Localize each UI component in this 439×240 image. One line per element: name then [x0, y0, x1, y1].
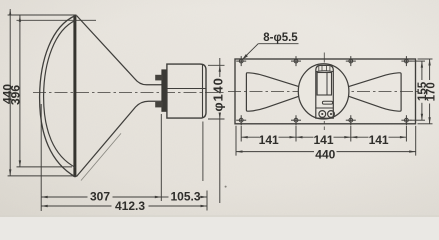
horn flare curve bottom-right — [346, 95, 399, 111]
terminal (right) — [328, 111, 335, 118]
svg-text:170: 170 — [425, 82, 437, 101]
paper speck — [225, 186, 227, 188]
bottom extension line from driver rear — [202, 122, 204, 182]
dimension 307 (horizontal, bottom) — [41, 196, 161, 198]
svg-text:141: 141 — [313, 133, 333, 147]
cover slot — [322, 101, 332, 104]
mounting holes, top row — [236, 56, 411, 66]
vertical center line — [323, 53, 325, 131]
driver housing circle — [298, 64, 349, 119]
driver cover (rounded slab) — [316, 65, 334, 118]
driver flange (dark vertical bar) — [162, 70, 167, 112]
dimensions 155 / 170 (vertical, right) — [411, 59, 433, 124]
svg-text:412.3: 412.3 — [115, 199, 145, 213]
bell outer contour arc — [40, 16, 76, 178]
cover rib line — [316, 70, 334, 73]
dimension 440 (horizontal, bottom right view) — [236, 150, 416, 152]
driver body rear seam — [202, 64, 204, 118]
cover window — [317, 73, 331, 96]
center line (horizontal axis) — [33, 91, 225, 93]
svg-text:φ140: φ140 — [211, 77, 226, 111]
dimension 440 (vertical, left) — [8, 9, 77, 176]
svg-text:307: 307 — [90, 189, 110, 203]
cover ribs — [319, 66, 330, 72]
8-φ5.5 leader line — [242, 44, 298, 60]
horn flare curve bottom-left — [249, 95, 302, 111]
horn flare upper line — [77, 16, 163, 85]
horn flare curve top-left — [249, 73, 302, 88]
horn mouth rim (thick vertical bar) — [73, 15, 76, 178]
dimension 396 (vertical, left) — [17, 15, 97, 167]
housing outer rectangle — [235, 59, 416, 124]
horn flare lower line — [77, 101, 163, 176]
svg-text:141: 141 — [369, 133, 389, 147]
scan bottom edge shade — [0, 215, 439, 217]
driver body horizontal seam — [167, 88, 206, 90]
horn flare lower inner line (faint) — [81, 133, 121, 180]
bell inner contour arc — [44, 20, 76, 167]
svg-text:105.3: 105.3 — [170, 189, 200, 203]
svg-text:8-φ5.5: 8-φ5.5 — [263, 32, 298, 44]
cover separator line — [316, 107, 334, 109]
cover window divider — [326, 73, 328, 96]
horn flare curve top-right — [346, 73, 399, 88]
terminal (left) — [319, 111, 326, 118]
bottom extension line from bell leftmost — [40, 104, 42, 211]
flange bolt (top) — [155, 75, 162, 81]
mounting holes, bottom row — [236, 115, 411, 125]
svg-text:440: 440 — [315, 148, 335, 162]
bottom extension lines (right view) — [236, 126, 416, 156]
bottom extension line from flange — [160, 114, 162, 201]
horn opening right edge — [399, 73, 402, 111]
svg-text:141: 141 — [259, 133, 279, 147]
dimension φ140 (vertical, right of driver) — [208, 58, 225, 203]
svg-text:396: 396 — [9, 85, 23, 105]
dimension 412.3 (horizontal, bottom) — [41, 205, 207, 207]
dimension 141/141/141 (horizontal) — [241, 136, 406, 138]
horn opening left edge — [246, 73, 249, 111]
dimension 105.3 (horizontal, bottom) — [161, 196, 207, 198]
driver body — [167, 64, 206, 118]
flange bolt (bottom) — [155, 102, 162, 108]
